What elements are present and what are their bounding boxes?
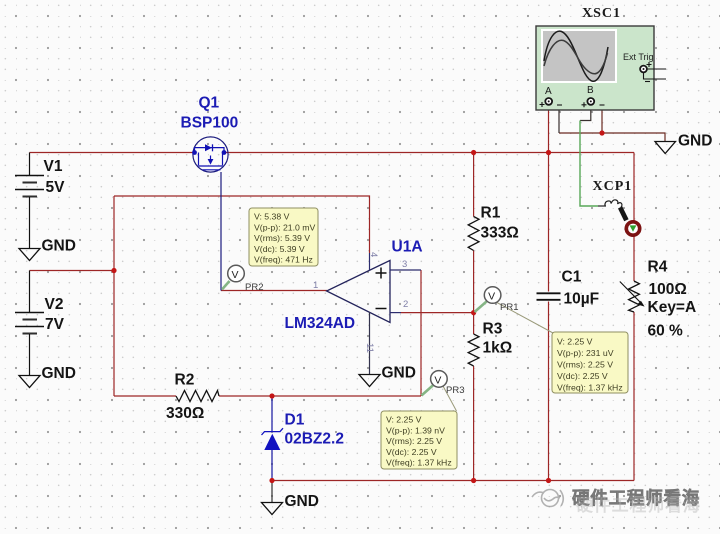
op-amp pin 3 stub (390, 269, 421, 271)
transistor Q1 BSP100 MOSFET (193, 137, 228, 172)
probe PR3 leader line (443, 386, 457, 411)
XSC1 Ext Trig terminal (640, 66, 647, 73)
wire horizontal y196 to op-amp pin4 (114, 196, 370, 253)
svg-text:V(freq): 1.37 kHz: V(freq): 1.37 kHz (557, 383, 623, 393)
ground symbol below V2 (19, 376, 40, 388)
svg-text:PR2: PR2 (245, 282, 263, 293)
probe readout box PR2 (249, 208, 318, 266)
wire R3 bottom vertical (473, 366, 475, 481)
svg-text:2: 2 (403, 299, 408, 310)
ground symbol below D1 (262, 503, 283, 515)
svg-text:1kΩ: 1kΩ (483, 340, 513, 357)
junction node pin2/R1/R3 (471, 310, 476, 315)
svg-text:PR3: PR3 (446, 385, 464, 396)
op-amp pin 11 stub to ground (369, 312, 371, 374)
svg-text:V(rms): 2.25 V: V(rms): 2.25 V (557, 360, 613, 370)
svg-text:GND: GND (42, 365, 76, 382)
svg-text:333Ω: 333Ω (481, 225, 519, 242)
svg-text:V(dc): 5.39 V: V(dc): 5.39 V (254, 244, 305, 254)
wire green XCP1 sense wire (580, 121, 598, 207)
svg-text:5V: 5V (46, 179, 66, 196)
wire top rail from Q1 to R4 corner (226, 152, 634, 154)
svg-text:4: 4 (368, 252, 379, 257)
wire XCP1 clamp lead (598, 205, 606, 207)
oscilloscope XSC1 body (536, 26, 654, 110)
svg-text:A: A (545, 86, 552, 97)
wire V2 top to node at x114 (30, 270, 115, 272)
probe PR3 tail (422, 385, 433, 395)
svg-text:V(freq): 471 Hz: V(freq): 471 Hz (254, 255, 313, 265)
wire R4 net vertical top (633, 153, 635, 282)
wire R4 bottom vertical (633, 312, 635, 481)
svg-text:V(p-p): 1.39 nV: V(p-p): 1.39 nV (386, 425, 445, 435)
svg-text:R1: R1 (481, 205, 501, 222)
svg-text:R3: R3 (483, 321, 503, 338)
svg-text:V: V (488, 291, 495, 303)
probe readout box PR1 (552, 332, 628, 393)
XSC1 channel A terminal (545, 98, 552, 105)
Q1 substrate arrow (208, 159, 214, 165)
svg-text:V2: V2 (45, 296, 64, 313)
svg-text:V(freq): 1.37 kHz: V(freq): 1.37 kHz (386, 458, 452, 468)
svg-text:V(dc): 2.25 V: V(dc): 2.25 V (386, 447, 437, 457)
ground symbol below op-amp (359, 375, 380, 387)
junction node D1 bottom rail (269, 478, 274, 483)
svg-text:GND: GND (678, 133, 712, 150)
svg-text:B: B (587, 85, 594, 96)
svg-text:U1A: U1A (392, 239, 423, 256)
svg-text:V1: V1 (44, 158, 63, 175)
junction node R3 bottom rail (471, 478, 476, 483)
svg-text:100Ω: 100Ω (649, 281, 687, 298)
wire scope A- stub (552, 101, 559, 133)
svg-text:XSC1: XSC1 (582, 6, 621, 21)
battery V2 (15, 271, 44, 376)
junction node R1 top rail (471, 150, 476, 155)
XCP1 clamp coil (605, 200, 622, 207)
svg-text:60 %: 60 % (648, 323, 684, 340)
svg-text:1: 1 (313, 280, 318, 291)
svg-text:R4: R4 (648, 259, 668, 276)
svg-text:C1: C1 (562, 269, 582, 286)
probe PR2 tail (222, 281, 230, 290)
ground symbol below V1 (19, 249, 40, 261)
resistor R1 (468, 217, 479, 251)
R4 wiper arrow (620, 282, 641, 304)
svg-text:02BZ2.2: 02BZ2.2 (285, 431, 344, 448)
svg-text:硬件工程师看海: 硬件工程师看海 (576, 495, 701, 515)
svg-text:V(rms): 5.39 V: V(rms): 5.39 V (254, 233, 310, 243)
svg-text:V: V (434, 374, 441, 386)
probe PR1 leader line (496, 302, 553, 333)
XSC1 Ext Trig stub wires (644, 69, 667, 79)
wire op-amp output to Q1 gate corner (221, 290, 327, 292)
resistor R2 (176, 391, 219, 402)
svg-text:V: 2.25 V: V: 2.25 V (386, 415, 422, 425)
op-amp U1A LM324AD (327, 260, 390, 322)
wire scope ground rail y133 (559, 133, 665, 141)
svg-text:11: 11 (364, 343, 375, 353)
svg-text:GND: GND (382, 365, 416, 382)
svg-text:V(dc): 2.25 V: V(dc): 2.25 V (557, 371, 608, 381)
op-amp pin 2 stub (390, 312, 401, 314)
svg-text:Ext Trig: Ext Trig (623, 52, 654, 62)
wire scope B- stub (595, 101, 602, 133)
potentiometer R4 (629, 281, 640, 312)
svg-text:LM324AD: LM324AD (285, 315, 356, 332)
wire C1 bottom vertical (548, 302, 550, 481)
wire vertical supply x114 from y196 to R2 (113, 196, 115, 396)
ground symbol scope rail (655, 142, 676, 154)
svg-text:7V: 7V (45, 316, 65, 333)
svg-text:V: 2.25 V: V: 2.25 V (557, 337, 593, 347)
svg-text:V: 5.38 V: V: 5.38 V (254, 212, 290, 222)
wire op-amp pin2 to R1/R3 node (400, 312, 474, 314)
wire scope A to C1 vertical (548, 105, 550, 292)
resistor R3 (468, 334, 479, 366)
svg-text:GND: GND (42, 238, 76, 255)
svg-text:Key=A: Key=A (648, 299, 697, 316)
svg-text:BSP100: BSP100 (181, 115, 239, 132)
wire D1 bottom stub (271, 450, 273, 481)
wire R1 bottom to R3 top (473, 251, 475, 335)
XCP1 green arrow (630, 225, 637, 231)
svg-text:10µF: 10µF (564, 291, 600, 308)
wire op-amp pin3 vertical (420, 270, 422, 396)
diode D1 zener (262, 428, 284, 435)
wire bottom ground rail (272, 480, 634, 482)
svg-text:Q1: Q1 (199, 95, 220, 112)
junction node R2/D1 (269, 393, 274, 398)
junction node C1 bottom rail (546, 478, 551, 483)
XCP1 clamp jaw (618, 206, 629, 221)
svg-text:GND: GND (285, 493, 319, 510)
svg-text:PR1: PR1 (500, 302, 518, 313)
svg-text:3: 3 (402, 259, 407, 270)
XSC1 trace channel A (544, 31, 608, 81)
junction node V2/x114 (111, 268, 116, 273)
watermark logo (532, 490, 563, 507)
wire D1 ground stub (271, 481, 273, 503)
XSC1 channel B terminal (587, 98, 594, 105)
probe PR3 circle (431, 371, 448, 388)
svg-text:V(p-p): 21.0 mV: V(p-p): 21.0 mV (254, 222, 316, 232)
junction node scope ground rail (599, 130, 604, 135)
svg-text:330Ω: 330Ω (166, 405, 204, 422)
XSC1 trace channel B (544, 40, 608, 74)
junction node C1 top rail (546, 150, 551, 155)
svg-text:V(rms): 2.25 V: V(rms): 2.25 V (386, 436, 442, 446)
Q1 body diode (205, 144, 212, 151)
wire D1 top stub (271, 396, 273, 431)
probe PR1 tail (475, 302, 487, 313)
XSC1 screen (542, 30, 616, 82)
wire R1 top vertical (473, 153, 475, 217)
current probe XCP1 ring (626, 222, 639, 235)
svg-text:R2: R2 (175, 372, 195, 389)
wire Q1 gate vertical (220, 172, 222, 291)
wire scope B+ stub (580, 105, 591, 121)
wire R2 rail left segment (114, 395, 176, 397)
probe readout box PR3 (381, 411, 457, 469)
op-amp pin 4 stub (369, 253, 371, 271)
svg-text:V: V (232, 269, 239, 281)
wire R2 rail right segment to pin3 net (219, 395, 421, 397)
probe PR1 circle (484, 287, 501, 304)
svg-text:D1: D1 (285, 412, 305, 429)
battery V1 (15, 153, 44, 249)
svg-text:XCP1: XCP1 (593, 179, 633, 194)
Q1 terminal dots (192, 150, 197, 155)
svg-text:V(p-p): 231 uV: V(p-p): 231 uV (557, 348, 614, 358)
probe PR2 circle (228, 265, 245, 282)
wire top rail from V1 to Q1 (30, 152, 194, 154)
capacitor C1 (537, 293, 561, 300)
